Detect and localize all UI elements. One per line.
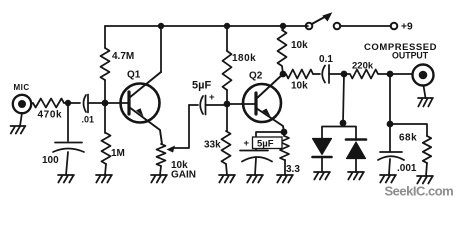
svg-text:.001: .001: [397, 163, 417, 174]
ground: [380, 175, 396, 183]
wire: [66, 152, 68, 175]
svg-text:SeekIC.com: SeekIC.com: [385, 184, 454, 199]
svg-text:GAIN: GAIN: [171, 170, 196, 181]
capacitor 5uF boxed label: [253, 137, 283, 149]
wire: [226, 164, 227, 175]
node L: [387, 121, 394, 128]
ground: [58, 175, 74, 183]
capacitor 5uF electrolytic: [240, 151, 272, 162]
node F: [280, 23, 286, 29]
transistor Q2: [243, 74, 284, 132]
node A: [65, 100, 71, 106]
wire: [226, 26, 228, 51]
ground: [219, 175, 235, 183]
wire: [255, 158, 256, 175]
node H: [341, 71, 348, 78]
svg-text:5µF: 5µF: [257, 139, 274, 150]
wire: [160, 26, 162, 72]
wire: [389, 74, 391, 124]
transistor Q1: [121, 72, 163, 144]
svg-text:MIC: MIC: [14, 83, 30, 92]
resistor 68k: [423, 136, 431, 163]
svg-text:+9: +9: [401, 22, 413, 33]
svg-text:OUTPUT: OUTPUT: [392, 50, 429, 60]
ground: [418, 98, 433, 107]
resistor 180k: [223, 51, 232, 90]
svg-text:68k: 68k: [399, 133, 417, 144]
wire: [67, 103, 69, 141]
svg-text:10k: 10k: [291, 40, 308, 51]
resistor 4.7M: [101, 48, 110, 80]
node I: [387, 71, 394, 78]
wire: [343, 74, 344, 123]
wire: [424, 86, 426, 99]
node D: [224, 101, 231, 108]
resistor 220k: [344, 70, 390, 79]
capacitor 0.1: [313, 65, 344, 83]
ground: [348, 172, 364, 180]
wire: [160, 166, 161, 175]
potentiometer 10k GAIN: [157, 144, 166, 166]
ground: [151, 175, 167, 183]
resistor 10k series: [283, 70, 313, 79]
svg-text:33k: 33k: [204, 140, 221, 151]
pot wiper arrow: [167, 105, 190, 153]
switch S1: [306, 12, 341, 29]
capacitor 5uF: [189, 96, 227, 115]
svg-text:0.1: 0.1: [319, 54, 333, 65]
svg-text:+: +: [244, 138, 250, 149]
svg-text:4.7M: 4.7M: [112, 51, 134, 62]
terminal +9: [391, 23, 398, 30]
svg-text:Q1: Q1: [127, 70, 141, 81]
wire: [105, 25, 308, 27]
diode D1: [313, 139, 332, 173]
resistor 10k vertical: [278, 26, 287, 74]
svg-text:5µF: 5µF: [192, 80, 211, 92]
wire: [226, 90, 228, 104]
capacitor 100: [53, 143, 84, 153]
wire: [104, 26, 106, 48]
ground: [247, 175, 263, 183]
ground: [96, 175, 112, 183]
svg-text:10k: 10k: [291, 81, 308, 92]
diode D2: [346, 140, 366, 173]
node E: [224, 23, 230, 29]
wire: [105, 102, 129, 104]
wire: [227, 103, 256, 105]
node G: [280, 71, 287, 78]
wire: [284, 160, 286, 175]
wire: [20, 113, 22, 126]
svg-text:Q2: Q2: [249, 71, 263, 82]
resistor 470k: [31, 99, 68, 108]
wire: [104, 80, 106, 103]
wire: [105, 164, 106, 175]
svg-text:100: 100: [42, 155, 59, 166]
ground: [277, 175, 293, 183]
wire: [426, 163, 427, 176]
wire: [256, 132, 284, 150]
resistor 33k: [222, 104, 231, 164]
wire: [340, 25, 391, 27]
svg-text:+: +: [209, 92, 215, 103]
wire: [389, 159, 390, 174]
capacitor .01: [68, 95, 105, 113]
svg-text:1M: 1M: [111, 148, 125, 159]
wire: [390, 124, 427, 136]
jack J1 MIC: [13, 95, 31, 113]
capacitor .001: [378, 124, 404, 160]
svg-text:180k: 180k: [232, 53, 256, 64]
ground: [11, 126, 26, 134]
node B: [102, 100, 109, 107]
wire: [322, 123, 356, 140]
resistor 3.3: [280, 132, 289, 160]
node C: [158, 23, 164, 29]
svg-text:3.3: 3.3: [286, 164, 300, 175]
node K: [340, 120, 347, 127]
node J: [281, 129, 288, 136]
ground: [417, 176, 433, 184]
jack J2 output: [413, 65, 434, 86]
resistor 1M: [102, 103, 111, 164]
svg-text:.01: .01: [82, 115, 95, 125]
svg-text:470k: 470k: [38, 110, 63, 121]
ground: [314, 172, 330, 180]
wire: [390, 73, 412, 75]
svg-text:220k: 220k: [352, 61, 374, 72]
